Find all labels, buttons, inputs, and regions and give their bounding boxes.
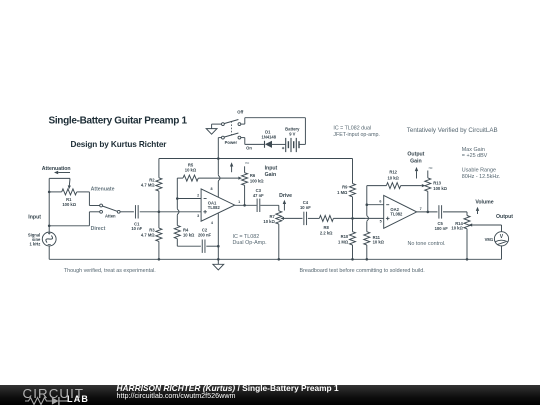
svg-text:R13: R13 <box>433 180 441 185</box>
svg-text:1: 1 <box>238 200 240 204</box>
svg-text:JFET-input op-amp.: JFET-input op-amp. <box>333 132 380 138</box>
svg-text:Attenuation: Attenuation <box>42 166 71 172</box>
svg-text:= +25 dBV: = +25 dBV <box>462 153 488 159</box>
svg-text:1N4148: 1N4148 <box>262 134 277 139</box>
svg-text:Output: Output <box>407 152 424 158</box>
svg-text:Tentatively Verified by Circui: Tentatively Verified by CircuitLAB <box>407 127 498 134</box>
svg-text:200 nF: 200 nF <box>198 233 212 238</box>
svg-text:TL082: TL082 <box>208 205 221 210</box>
svg-text:6: 6 <box>379 200 381 204</box>
svg-text:R12: R12 <box>389 170 397 175</box>
svg-text:Gain: Gain <box>410 158 422 164</box>
svg-text:4: 4 <box>211 221 214 225</box>
svg-text:nc: nc <box>245 161 249 165</box>
svg-text:47 nF: 47 nF <box>253 193 264 198</box>
svg-text:1 MΩ: 1 MΩ <box>337 190 348 195</box>
svg-text:2: 2 <box>197 193 199 197</box>
svg-text:8: 8 <box>210 187 212 191</box>
svg-text:IC = TL082 dual: IC = TL082 dual <box>333 125 371 131</box>
svg-text:Drive: Drive <box>279 193 292 199</box>
svg-text:7: 7 <box>420 207 422 211</box>
svg-text:1 kHz: 1 kHz <box>29 241 40 246</box>
svg-text:100 kΩ: 100 kΩ <box>250 178 264 183</box>
svg-text:Atten: Atten <box>105 214 116 219</box>
svg-text:Output: Output <box>496 214 513 220</box>
svg-text:On: On <box>246 145 252 150</box>
svg-text:4.7 MΩ: 4.7 MΩ <box>141 183 155 188</box>
svg-text:VM1: VM1 <box>485 237 494 242</box>
svg-text:10 nF: 10 nF <box>131 226 142 231</box>
svg-text:Power: Power <box>225 140 238 145</box>
svg-text:Input: Input <box>265 165 278 171</box>
svg-text:Dual Op-Amp.: Dual Op-Amp. <box>233 240 267 246</box>
svg-text:10 kΩ: 10 kΩ <box>451 226 463 231</box>
svg-text:100 nF: 100 nF <box>435 226 449 231</box>
svg-text:5: 5 <box>380 220 382 224</box>
svg-text:Single-Battery Guitar Preamp 1: Single-Battery Guitar Preamp 1 <box>49 115 188 126</box>
svg-text:100 kΩ: 100 kΩ <box>433 186 447 191</box>
svg-text:10 nF: 10 nF <box>300 205 311 210</box>
svg-text:TL082: TL082 <box>390 212 403 217</box>
svg-text:Gain: Gain <box>265 172 277 178</box>
svg-text:10 kΩ: 10 kΩ <box>373 239 385 244</box>
svg-text:Max Gain: Max Gain <box>462 147 485 153</box>
svg-text:10 kΩ: 10 kΩ <box>183 233 195 238</box>
svg-text:80Hz - 12.5kHz.: 80Hz - 12.5kHz. <box>462 174 501 180</box>
svg-text:2.2 kΩ: 2.2 kΩ <box>320 230 333 235</box>
svg-text:Though verified, treat as expe: Though verified, treat as experimental. <box>64 268 156 274</box>
svg-text:Volume: Volume <box>475 200 493 206</box>
svg-text:4.7 MΩ: 4.7 MΩ <box>141 233 155 238</box>
svg-text:Design by Kurtus Richter: Design by Kurtus Richter <box>71 140 168 149</box>
svg-text:R9: R9 <box>342 184 348 189</box>
svg-text:10 kΩ: 10 kΩ <box>263 219 275 224</box>
svg-text:10 kΩ: 10 kΩ <box>185 167 197 172</box>
svg-text:Input: Input <box>28 214 41 220</box>
svg-text:No tone control.: No tone control. <box>408 241 446 247</box>
svg-text:10 kΩ: 10 kΩ <box>388 176 400 181</box>
svg-text:Usable Range: Usable Range <box>462 168 496 174</box>
svg-text:nc: nc <box>429 166 433 170</box>
svg-text:3: 3 <box>197 214 199 218</box>
svg-text:Off: Off <box>237 110 244 115</box>
svg-text:Breadboard test before committ: Breadboard test before committing to sol… <box>300 268 425 274</box>
svg-text:1 MΩ: 1 MΩ <box>338 240 349 245</box>
svg-text:9 V: 9 V <box>289 131 295 136</box>
svg-text:R10: R10 <box>341 234 349 239</box>
svg-text:IC = TL082: IC = TL082 <box>233 234 260 240</box>
svg-text:100 kΩ: 100 kΩ <box>62 202 76 207</box>
svg-text:Direct: Direct <box>91 226 106 232</box>
svg-text:Attenuate: Attenuate <box>91 187 115 193</box>
